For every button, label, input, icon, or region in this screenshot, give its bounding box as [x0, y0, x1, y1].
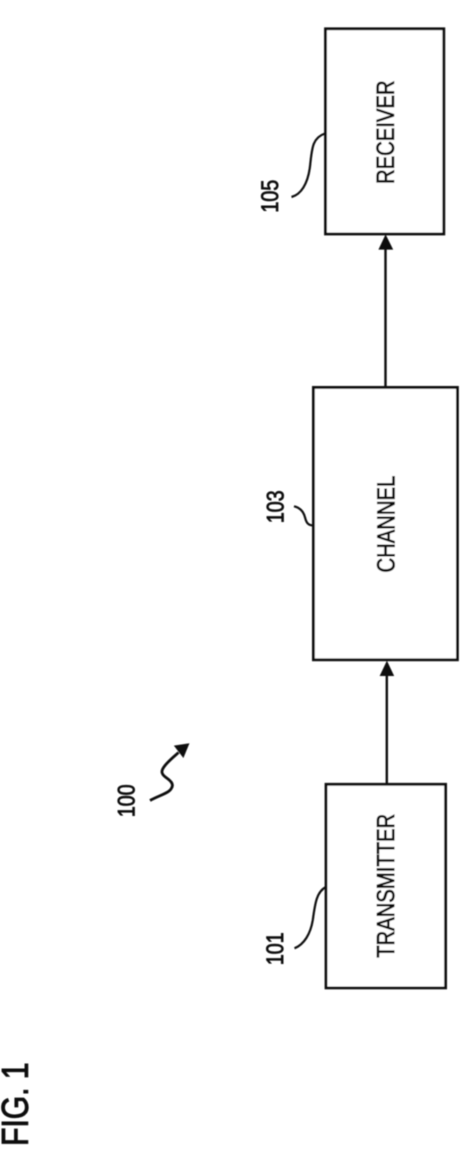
label 100	[118, 785, 135, 816]
label FIG. 1	[2, 1064, 29, 1143]
squiggle arrow for 100	[150, 744, 189, 801]
arrow TRANSMITTER to CHANNEL	[380, 662, 393, 785]
label 105	[261, 181, 278, 212]
leader line to CHANNEL	[294, 506, 313, 525]
leader line to TRANSMITTER	[295, 887, 327, 948]
label 101	[266, 933, 283, 963]
leader line to RECEIVER	[292, 134, 326, 198]
box CHANNEL (103)	[313, 387, 457, 659]
label 103	[267, 491, 284, 522]
arrow CHANNEL to RECEIVER	[379, 235, 393, 386]
box TRANSMITTER (101)	[326, 784, 446, 988]
box RECEIVER (105)	[326, 29, 444, 234]
